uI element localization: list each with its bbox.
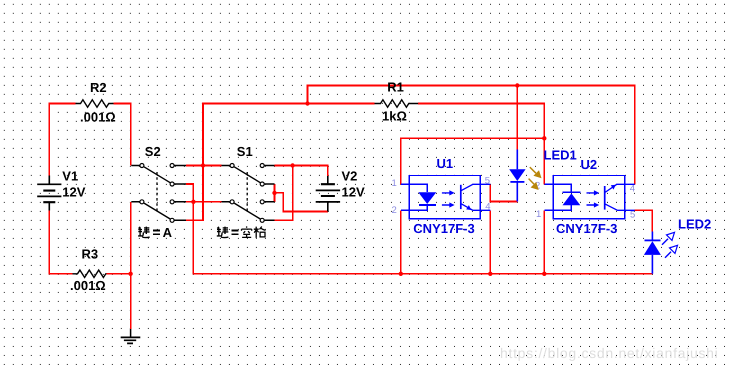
svg-text:S2: S2 (145, 144, 161, 159)
svg-text:LED2: LED2 (678, 216, 711, 231)
svg-text:CNY17F-3: CNY17F-3 (556, 221, 617, 236)
junction node U1 pin2 bottom (399, 272, 403, 276)
svg-text:.001Ω: .001Ω (70, 278, 106, 293)
svg-text:5: 5 (485, 175, 490, 186)
svg-text:12V: 12V (62, 184, 85, 199)
svg-text:V1: V1 (62, 168, 78, 183)
resistor R3 .001ohm (70, 247, 107, 294)
label key equals space (217, 226, 266, 238)
svg-text:R3: R3 (82, 247, 99, 262)
junction node S1 throw1a (290, 163, 294, 167)
battery V2 12V (316, 168, 365, 211)
svg-text:A: A (163, 225, 173, 240)
wire S2 throw1a to S1 pole1 common (186, 165, 222, 167)
switch S1 key space (222, 144, 275, 222)
junction node U2 pin1 bottom (542, 272, 546, 276)
svg-text:4: 4 (630, 183, 635, 194)
wire U2 pin1 down to bottom rail (543, 210, 545, 273)
wire S1 throw1a to V2 plus (275, 166, 328, 177)
wire R1 right to node under R1 (418, 104, 544, 139)
wire S2 pole2 common down to ground node (130, 202, 132, 329)
svg-text:LED1: LED1 (544, 147, 577, 162)
svg-text:5: 5 (630, 209, 635, 220)
wire V1 plus to R2 left (49, 104, 75, 176)
wire U2 pin5 to LED2 cathode (635, 210, 653, 231)
resistor R1 1kohm (375, 79, 419, 123)
svg-text:12V: 12V (342, 184, 365, 199)
diode LED2 (644, 216, 711, 273)
wire S1 throw1b throw2a junction (274, 184, 276, 202)
svg-text:R1: R1 (387, 79, 404, 94)
battery V1 12V (37, 168, 86, 210)
wire top rail from R1 node to U2 pin4 (308, 86, 635, 185)
wire U1 pin2 down to bottom rail (400, 210, 402, 273)
svg-text:R2: R2 (90, 80, 107, 95)
junction node R1 left (305, 101, 309, 105)
optocoupler U2 CNY17F-3 (535, 157, 635, 236)
svg-text:V2: V2 (342, 168, 358, 183)
svg-text:U2: U2 (581, 157, 598, 172)
junction node S2 throw2a (191, 200, 195, 204)
svg-text:https://blog.csdn.net/xianfaju: https://blog.csdn.net/xianfajushi (500, 345, 718, 361)
wire top rail node down to LED1 anode (516, 86, 518, 150)
wire S2 throw1b down to bottom rail (186, 184, 652, 274)
diode LED1 (509, 147, 577, 201)
wire S2 throw2a to S1 pole2 common (186, 201, 222, 203)
switch S2 key A (131, 144, 186, 222)
wire S1 middle node to V2 minus (275, 193, 328, 212)
svg-text:4: 4 (485, 202, 490, 213)
svg-text:1: 1 (392, 178, 397, 189)
svg-text:2: 2 (392, 205, 397, 216)
wire R3 right to ground column (107, 273, 131, 275)
junction node S1 middle (272, 191, 276, 195)
svg-text:S1: S1 (237, 144, 253, 159)
wire R1 row left and node A column to S2 throw2b (186, 104, 375, 221)
wire U1 pin5 to LED1 cathode (490, 184, 517, 201)
wire R2 right down to S2 pole1 common (114, 104, 131, 166)
wire V1 minus down to R3 left (49, 211, 72, 274)
junction node under R1 (542, 136, 546, 140)
optocoupler U1 CNY17F-3 (392, 156, 491, 236)
wire U1 pin1 to node under R1 (401, 138, 545, 184)
junction node R3 ground (128, 272, 132, 276)
junction node S2 throw1a (201, 163, 205, 167)
svg-text:1kΩ: 1kΩ (382, 108, 407, 123)
svg-text:.001Ω: .001Ω (80, 109, 116, 124)
resistor R2 .001ohm (76, 80, 116, 125)
svg-text:U1: U1 (437, 156, 454, 171)
label key equals A (138, 225, 173, 240)
svg-text:CNY17F-3: CNY17F-3 (413, 221, 474, 236)
junction node LED1 top (515, 83, 519, 87)
wire S1 throw2b up to throw1a node (275, 166, 293, 221)
wire U1 pin4 down to bottom rail (489, 210, 491, 273)
wire node under R1 down to U2 pin2 (543, 138, 545, 184)
junction node U1 pin4 bottom (488, 272, 492, 276)
ground (121, 329, 141, 343)
svg-text:1: 1 (536, 209, 541, 220)
